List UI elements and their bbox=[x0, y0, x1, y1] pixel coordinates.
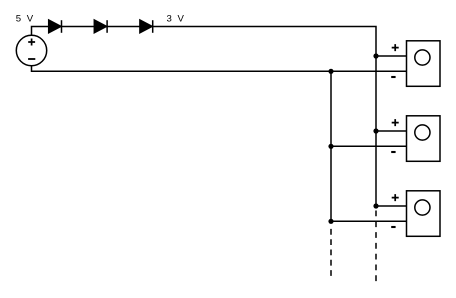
diode D1 bbox=[49, 20, 62, 33]
label L2 minus bbox=[391, 151, 395, 153]
junction dot L2 minus bbox=[328, 144, 333, 149]
diode D3 bbox=[140, 20, 153, 33]
diode D2 bbox=[94, 20, 107, 33]
label L1 plus bbox=[392, 44, 399, 51]
voltage source V1 5V bbox=[16, 35, 46, 65]
wire load L2 plus bbox=[376, 130, 407, 132]
load L3 (box with circle) bbox=[407, 191, 441, 237]
wire load L2 minus bbox=[331, 145, 407, 147]
wire dashed continuation right bus bbox=[375, 211, 377, 282]
load L2 (box with circle) bbox=[407, 116, 441, 162]
wire left bus bbox=[330, 71, 332, 221]
wire load L1 plus bbox=[376, 55, 407, 57]
label L1 minus bbox=[391, 76, 395, 78]
svg-text:3 V: 3 V bbox=[167, 14, 186, 25]
wire dashed continuation left bus bbox=[330, 229, 332, 278]
junction dot L2 plus bbox=[373, 128, 378, 133]
svg-text:5 V: 5 V bbox=[16, 13, 35, 24]
wire bottom net from source to load L1 minus bbox=[32, 66, 407, 72]
label L3 plus bbox=[392, 194, 399, 201]
label L3 minus bbox=[391, 226, 395, 228]
junction dot L3 minus bbox=[328, 219, 333, 224]
junction dot L3 plus bbox=[373, 203, 378, 208]
load L1 (box with circle) bbox=[407, 41, 441, 87]
junction dot left bus / bottom wire bbox=[328, 69, 333, 74]
wire load L3 minus bbox=[331, 220, 407, 222]
wire top net from source through diodes to right bus bbox=[32, 27, 377, 207]
label L2 plus bbox=[392, 119, 399, 126]
wire load L3 plus bbox=[376, 205, 407, 207]
junction dot L1 plus bbox=[373, 53, 378, 58]
